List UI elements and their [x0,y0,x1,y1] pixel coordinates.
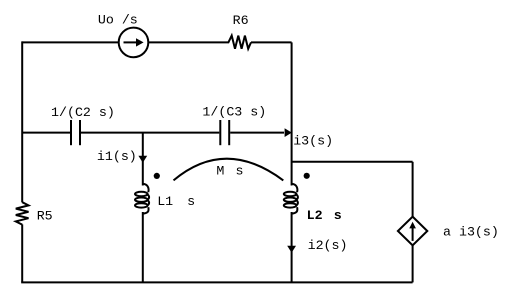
svg-text:i2(s): i2(s) [308,238,348,253]
inductor L1 [135,184,149,214]
svg-text:1/(C3 s): 1/(C3 s) [202,105,266,120]
resistor R5 [16,202,29,224]
label M s [216,164,243,179]
wire L1 branch lower [142,212,144,282]
wire right rail lower [291,212,293,282]
current arrow i1 [138,156,147,163]
wire bottom rail [21,281,412,283]
svg-text:i1(s): i1(s) [97,149,137,164]
wire L1 branch upper [142,133,144,186]
svg-text:L1s: L1s [157,194,195,209]
svg-text:L2s: L2s [307,208,342,223]
label i1(s) [97,149,137,164]
label Uo /s [98,13,138,28]
wire dependent source upper lead [412,162,414,217]
capacitor C3 [220,120,229,145]
wire left rail upper [21,41,23,202]
svg-text:Uo /s: Uo /s [98,13,138,28]
wire right horizontal (to dependent source) [292,161,413,163]
svg-text:Ms: Ms [216,164,243,179]
dot L1 polarity [154,173,160,179]
resistor R6 [222,36,251,49]
wire top right (R6 to right rail corner) [251,41,292,43]
svg-text:R5: R5 [37,208,53,223]
wire dependent source lower lead [412,245,414,282]
wire capacitor row left [22,132,70,134]
svg-text:R6: R6 [233,13,249,28]
wire right rail upper [291,42,293,185]
label 1/(C3 s) [202,105,266,120]
dependent current source a·i3 (diamond) [398,217,427,246]
label a i3(s) [443,225,499,240]
inductor L2 [284,184,298,214]
wire capacitor row right (i3 shaft) [230,132,284,134]
source U1 (Uo/s) circle with arrow [119,28,149,58]
capacitor C2 [71,120,80,145]
label L2 s [307,208,342,223]
label i3(s) [293,134,333,149]
label R6 [233,13,249,28]
label 1/(C2 s) [51,105,115,120]
wire top left (node between source and left rail) [22,41,222,43]
svg-text:i3(s): i3(s) [293,134,333,149]
dot L2 polarity [304,173,310,179]
label i2(s) [308,238,348,253]
label R5 [37,208,53,223]
label L1 s [157,194,195,209]
current arrow i2 [287,246,296,253]
mutual coupling arc M [174,159,284,181]
wire capacitor row middle [81,132,219,134]
wire left rail lower [21,224,23,282]
svg-text:1/(C2 s): 1/(C2 s) [51,105,115,120]
svg-text:a i3(s): a i3(s) [443,225,499,240]
current arrow i3 [285,128,292,137]
